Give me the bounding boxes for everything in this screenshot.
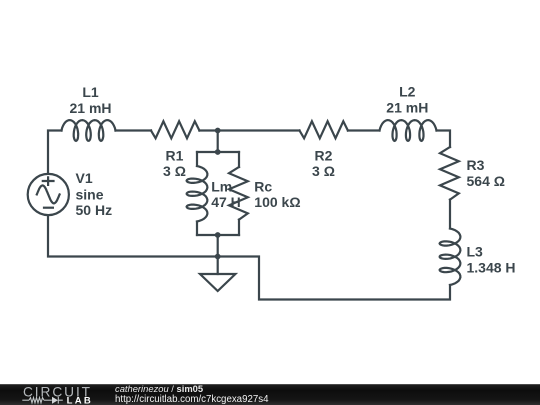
inductor L2 <box>380 120 437 141</box>
svg-text:catherinezou / sim05: catherinezou / sim05 <box>115 383 203 394</box>
junction dot parallel top <box>215 149 221 155</box>
resistor Rc <box>229 167 248 220</box>
logo wire to diode <box>44 399 52 401</box>
wire L2 to top-right corner down to R3 <box>437 131 451 148</box>
junction dot ground node <box>215 254 221 260</box>
svg-text:3 Ω: 3 Ω <box>312 163 335 179</box>
svg-text:R2: R2 <box>315 148 333 164</box>
inductor Lm <box>187 166 208 222</box>
svg-text:47 H: 47 H <box>211 194 241 210</box>
logo resistor zigzag <box>29 398 44 403</box>
parallel right branch leads (Rc) <box>238 152 240 167</box>
V1 minus sign <box>43 207 54 209</box>
V1 sine wave <box>37 185 60 203</box>
svg-text:R1: R1 <box>166 148 184 164</box>
svg-text:sine: sine <box>76 187 104 203</box>
stem from parallel box to bottom wire <box>217 235 219 257</box>
svg-text:http://circuitlab.com/c7kcgexa: http://circuitlab.com/c7kcgexa927s4 <box>115 394 269 405</box>
parallel box bottom wire <box>197 234 239 236</box>
wire top-left from V1 up to L1 <box>48 131 62 174</box>
ground triangle <box>200 274 235 291</box>
svg-text:100 kΩ: 100 kΩ <box>254 194 300 210</box>
logo diode cathode bar and wire <box>58 397 63 404</box>
voltage source V1 circle <box>28 174 69 215</box>
svg-text:Rc: Rc <box>254 178 272 194</box>
svg-text:21 mH: 21 mH <box>386 99 428 115</box>
svg-text:1.348 H: 1.348 H <box>467 259 516 275</box>
logo diode triangle <box>52 397 58 404</box>
svg-text:50 Hz: 50 Hz <box>76 202 113 218</box>
wire R2 to L2 <box>348 129 380 131</box>
inductor L3 <box>440 229 461 286</box>
V1 plus sign <box>42 176 55 186</box>
resistor R3 <box>440 147 459 200</box>
svg-text:564 Ω: 564 Ω <box>467 173 505 189</box>
junction dot top node <box>215 128 221 134</box>
svg-text:L2: L2 <box>399 84 416 100</box>
svg-text:V1: V1 <box>76 170 93 186</box>
svg-text:LAB: LAB <box>67 395 93 405</box>
logo wire lead <box>22 399 29 401</box>
svg-text:21 mH: 21 mH <box>69 100 111 116</box>
wire R3 to L3 <box>449 200 451 229</box>
junction dot parallel bottom <box>215 232 221 238</box>
resistor R2 <box>300 121 348 138</box>
svg-text:Lm: Lm <box>211 178 232 194</box>
svg-text:R3: R3 <box>467 157 485 173</box>
wire between L1 and R1 <box>116 129 152 131</box>
svg-text:L1: L1 <box>82 84 99 100</box>
wire L3 to bottom-right corner and bottom wire <box>48 215 450 299</box>
parallel left branch leads (Lm) <box>196 152 198 166</box>
svg-text:L3: L3 <box>467 244 484 260</box>
svg-text:3 Ω: 3 Ω <box>163 163 186 179</box>
ground stem <box>217 257 219 275</box>
resistor R1 <box>151 121 199 138</box>
wire R1 to node and on to R2 <box>199 129 299 131</box>
inductor L1 <box>62 120 116 141</box>
node stem at junction <box>217 131 219 153</box>
parallel box top wire <box>197 151 239 153</box>
